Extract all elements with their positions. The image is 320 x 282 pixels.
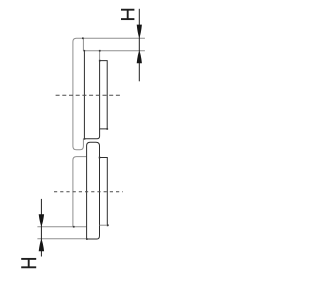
- top part: disc d3: [100, 61, 108, 129]
- bottom part: disc M' outline: [87, 142, 100, 239]
- bottom dimension arrow down: [39, 214, 44, 226]
- top part: disc d1 outline with top extension line: [73, 38, 145, 150]
- label H (bottom, rotated): [21, 259, 36, 267]
- bottom part: disc R' top and right edges: [100, 158, 108, 227]
- bottom part: disc A' outline with bottom extension line F1: [37, 157, 86, 227]
- junction ticks: [73, 37, 109, 240]
- bottom dimension arrow up: [39, 239, 44, 251]
- top dimension line: [138, 9, 140, 82]
- top part: disc d2 bottom edge: [84, 129, 99, 139]
- top dimension arrow down: [137, 25, 142, 38]
- bottom part: centerline: [54, 191, 123, 193]
- top part: extension line E2 (top of disc d2): [83, 50, 144, 52]
- bottom part: disc R' bottom edge: [100, 224, 108, 226]
- bottom part: extension line F2: [37, 238, 86, 240]
- top part: centerline: [56, 94, 122, 96]
- bottom dimension line: [40, 199, 42, 257]
- top part: disc d2 right edge stub: [99, 51, 101, 61]
- label H (top, rotated): [121, 10, 134, 19]
- top dimension arrow up: [137, 51, 142, 63]
- top part: disc d2 left edge: [83, 51, 85, 139]
